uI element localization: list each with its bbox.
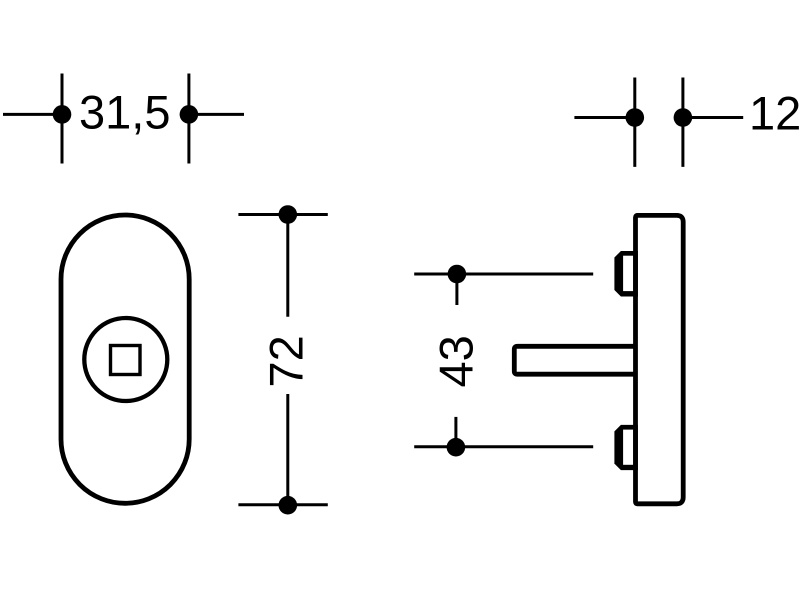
side view: rosette plate profile xyxy=(636,215,684,503)
front view: square spindle hole xyxy=(111,346,141,375)
dimension 72 : bottom dot xyxy=(279,496,298,515)
dimension 31,5 : right crosshair horizontal line xyxy=(189,113,244,116)
dimension 12 : right crosshair horizontal line xyxy=(683,116,743,119)
dimension 12 : left crosshair vertical line xyxy=(633,78,636,167)
dimension 43 : top extension tick xyxy=(455,274,458,305)
dimension 43 : bottom extension tick xyxy=(454,417,457,447)
dimension 12 : left dot xyxy=(626,108,645,127)
front view: rosette stadium outline xyxy=(61,215,189,503)
svg-text:31,5: 31,5 xyxy=(79,86,170,139)
dimension 72 : bottom tick xyxy=(238,503,327,506)
dimension 12 : right crosshair vertical line xyxy=(681,78,684,167)
front view: rose circle xyxy=(84,318,167,401)
dimension 31,5 : left crosshair vertical line xyxy=(61,74,64,164)
svg-text:43: 43 xyxy=(429,335,482,387)
dimension 72 : top tick xyxy=(238,213,327,216)
dimension 43 : bottom dot xyxy=(447,438,466,457)
dimension 31,5 : left dot xyxy=(53,105,72,124)
dimension 31,5 : right crosshair vertical line xyxy=(187,74,190,164)
dimension 12 : right dot xyxy=(674,108,693,127)
dimension 43 : top dot xyxy=(448,265,467,284)
svg-text:72: 72 xyxy=(259,335,312,387)
dimension 43 : bottom horizontal line xyxy=(414,445,593,448)
dimension 31,5 : right dot xyxy=(180,105,199,124)
dimension 12 : left crosshair horizontal line xyxy=(574,116,634,119)
dimension 43 : top horizontal line xyxy=(414,273,593,276)
side view: spindle bar xyxy=(514,346,635,374)
svg-text:12: 12 xyxy=(749,87,801,140)
dimension 72 : top dot xyxy=(279,205,298,224)
side view: bottom fixing clip xyxy=(614,425,638,470)
dimension 72 : upper extension line xyxy=(286,215,289,317)
side view: top fixing clip xyxy=(614,251,638,297)
dimension 72 : lower extension line xyxy=(286,394,289,505)
dimension 31,5 : left crosshair horizontal line xyxy=(3,113,62,116)
